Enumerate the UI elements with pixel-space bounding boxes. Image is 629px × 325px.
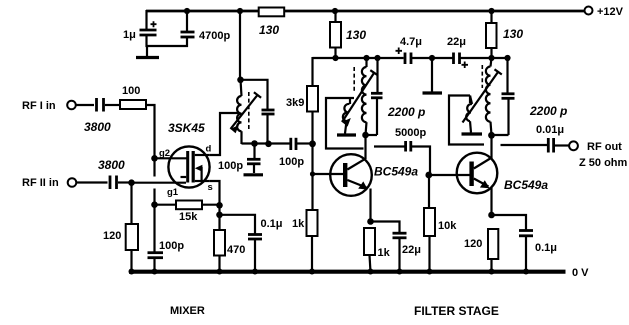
- svg-text:15k: 15k: [179, 211, 198, 223]
- wire 0.01u to terminal: [555, 144, 570, 146]
- node rail/mixer tank: [237, 8, 243, 14]
- node rail/130c: [488, 8, 494, 14]
- node base Q1: [310, 171, 315, 176]
- wire g2 lead: [155, 148, 189, 159]
- svg-text:0.1μ: 0.1μ: [535, 242, 557, 254]
- node tank2 bottom: [488, 132, 495, 139]
- node rail/4700p: [184, 8, 190, 14]
- capacitor 100p shunt to ground: [218, 144, 261, 174]
- caption FILTER STAGE: [414, 304, 499, 318]
- wire RF out: [501, 144, 548, 146]
- terminal RF II in: [22, 177, 76, 189]
- wire emitter node to 0.1u: [492, 215, 527, 230]
- svg-text:1k: 1k: [292, 218, 305, 230]
- capacitor 5000p: [395, 127, 426, 152]
- wire 0V bottom rail: [129, 267, 589, 279]
- transistor Q1 BC549a: [330, 154, 418, 222]
- wire 4.7u to 22u: [412, 57, 453, 59]
- svg-text:0.1μ: 0.1μ: [261, 218, 283, 230]
- svg-text:3800: 3800: [84, 120, 111, 134]
- resistor 15k: [155, 201, 220, 224]
- wire 5000p left: [374, 145, 405, 147]
- svg-text:130: 130: [503, 27, 523, 41]
- resistor 470: [214, 205, 245, 272]
- svg-text:0.01μ: 0.01μ: [536, 124, 564, 136]
- node 0V/22u: [397, 269, 403, 275]
- resistor 130 (filter 1 collector): [330, 11, 366, 59]
- capacitor C 4700p: [181, 11, 231, 47]
- node filter input: [309, 140, 316, 147]
- wire tank1 bottom to 2200p: [366, 134, 378, 136]
- svg-text:RF I in: RF I in: [22, 100, 56, 112]
- caption MIXER: [170, 305, 205, 317]
- capacitor 0.1u (Q2 emitter): [519, 231, 557, 273]
- node tank bottom / 100p shunt: [251, 140, 258, 147]
- svg-text:100: 100: [122, 85, 140, 97]
- wire base Q2: [429, 174, 470, 176]
- svg-text:2200 p: 2200 p: [529, 104, 567, 118]
- node bus/2200p-1: [374, 55, 380, 61]
- node bus/2200p-2: [504, 55, 510, 61]
- wire cap to g1 node: [118, 181, 132, 183]
- coupling coil tank 1: [343, 104, 350, 134]
- resistor 10k: [424, 175, 457, 272]
- coupling coil tank 2: [466, 96, 472, 133]
- node mixer tank top: [237, 77, 244, 84]
- terminal +12V: [585, 6, 624, 18]
- resistor 120 (RF II bias): [103, 183, 138, 272]
- resistor 1k (Q1 emitter): [364, 228, 391, 272]
- wire source down: [210, 181, 220, 205]
- svg-text:0 V: 0 V: [572, 267, 589, 279]
- svg-text:d: d: [206, 144, 212, 155]
- node 0V/470: [217, 269, 223, 275]
- wire RF II to cap: [77, 181, 108, 183]
- wire cap to R100: [105, 104, 120, 106]
- svg-text:100p: 100p: [218, 160, 243, 172]
- capacitor 0.01u (RF out): [536, 124, 564, 153]
- svg-text:BC549a: BC549a: [504, 178, 548, 192]
- node g2: [151, 155, 158, 162]
- wire 22u to 2200p-2 branch: [461, 57, 509, 59]
- svg-text:3k9: 3k9: [286, 97, 304, 109]
- resistor 120 (Q2 emitter): [464, 229, 498, 272]
- wire R100 to g2 node: [146, 105, 155, 159]
- capacitor 22u (top): [447, 36, 468, 68]
- capacitor 22u (Q1 emitter): [393, 233, 421, 272]
- inductor L1 variable (mixer tank): [231, 80, 262, 144]
- svg-text:MIXER: MIXER: [170, 305, 205, 317]
- ground tank 2: [462, 132, 483, 135]
- node bus/130b: [332, 55, 338, 61]
- node emitter Q1: [367, 218, 374, 225]
- svg-text:g2: g2: [159, 148, 170, 159]
- node tank1 bottom: [362, 132, 369, 139]
- capacitor 3800 (RF II coupling): [98, 158, 125, 189]
- svg-text:470: 470: [227, 244, 245, 256]
- svg-text:10k: 10k: [438, 220, 457, 232]
- wire rail down to mixer tank: [239, 11, 241, 80]
- svg-text:s: s: [208, 182, 213, 193]
- wire +12V top rail: [146, 10, 584, 13]
- capacitor 100p (g2 bypass): [148, 205, 185, 272]
- node source/0.1u: [216, 212, 223, 219]
- svg-text:100p: 100p: [159, 240, 184, 252]
- node bus/coil2: [488, 55, 494, 61]
- node 0V/0.1u mixer: [252, 269, 258, 275]
- svg-text:3800: 3800: [98, 158, 125, 172]
- resistor 130 (filter 2 collector): [486, 11, 523, 59]
- node tank bottom / tank cap: [265, 141, 272, 148]
- resistor 1k (Q1 bias lower): [292, 210, 318, 272]
- node 0V/0.1u filter: [523, 269, 529, 275]
- node 0V/120b: [489, 269, 495, 275]
- resistor 3k9: [286, 86, 318, 144]
- svg-text:RF II in: RF II in: [22, 177, 59, 189]
- node 0V/1k emitter: [368, 269, 374, 275]
- inductor variable tank 2: [463, 58, 502, 135]
- wire base Q1: [313, 173, 344, 175]
- svg-text:4700p: 4700p: [199, 30, 230, 42]
- wire mixer tank bottom: [242, 142, 291, 144]
- wire tank2 bottom to 2200p: [492, 134, 509, 136]
- capacitor 2200p (tank 1): [371, 58, 425, 135]
- svg-text:130: 130: [259, 23, 279, 37]
- svg-text:120: 120: [464, 238, 482, 250]
- svg-text:1k: 1k: [378, 247, 391, 259]
- capacitor C 1u electrolytic: [123, 10, 157, 47]
- wire bias node down to base tee: [311, 144, 313, 211]
- node base Q2: [425, 172, 432, 179]
- svg-text:BC549a: BC549a: [374, 165, 418, 179]
- wire source node to 0.1u: [220, 215, 256, 234]
- svg-text:FILTER STAGE: FILTER STAGE: [414, 304, 499, 318]
- shield box tank 1: [326, 98, 364, 149]
- node 0V/1k bias: [309, 269, 315, 275]
- wire drain to mixer tank: [210, 113, 239, 155]
- node source/15k: [216, 202, 223, 209]
- svg-text:+12V: +12V: [597, 6, 624, 18]
- capacitor 2200p (tank 2): [502, 58, 568, 135]
- svg-text:g1: g1: [167, 187, 179, 198]
- wire g1 lead: [132, 183, 187, 198]
- capacitor mixer tank: [262, 110, 275, 144]
- wire filter supply bus y58: [313, 57, 404, 87]
- svg-text:2200 p: 2200 p: [387, 105, 425, 119]
- node g1: [128, 179, 135, 186]
- svg-text:22μ: 22μ: [402, 244, 421, 256]
- wire RF I to cap: [76, 104, 94, 106]
- resistor 100: [120, 85, 146, 109]
- terminal RF I in: [22, 100, 76, 112]
- svg-text:3SK45: 3SK45: [168, 121, 205, 135]
- svg-text:100p: 100p: [279, 156, 304, 168]
- wire emitter node to 22u: [371, 222, 400, 233]
- node 15k/g2 line: [151, 201, 158, 208]
- node rail/130b: [332, 8, 338, 14]
- node bus/coil1: [363, 55, 369, 61]
- wire mixer tank top: [240, 80, 268, 110]
- wire collector Q1: [364, 135, 366, 159]
- inductor variable tank 1: [342, 58, 378, 135]
- terminal RF out: [569, 141, 627, 169]
- wire 1u to 4700p bottom: [146, 45, 189, 47]
- svg-text:120: 120: [103, 230, 121, 242]
- capacitor 3800 (RF I coupling): [84, 98, 111, 134]
- ground tank 1: [337, 133, 356, 136]
- wire collector Q2: [490, 135, 492, 159]
- capacitor 100p series (mixer out): [279, 138, 313, 168]
- resistor 130 (top horizontal): [259, 8, 285, 38]
- svg-text:Z 50 ohm: Z 50 ohm: [579, 157, 628, 169]
- node 0V/120a: [129, 269, 135, 275]
- ground below 1u: [136, 46, 159, 58]
- svg-text:130: 130: [346, 28, 366, 42]
- svg-text:1μ: 1μ: [123, 29, 136, 41]
- transistor Q2 BC549a: [457, 153, 549, 216]
- node 0V/10k: [427, 269, 433, 275]
- ground below 100p shunt: [244, 173, 264, 176]
- node emitter Q2: [488, 212, 495, 219]
- capacitor 4.7u: [396, 36, 423, 64]
- transistor U1 3SK45 dual-gate MOSFET: [168, 121, 213, 193]
- svg-text:5000p: 5000p: [395, 127, 426, 139]
- wire g2 node down (crosses g1 wire with gap): [153, 158, 155, 205]
- node bus/ground stub: [429, 55, 435, 61]
- svg-text:RF out: RF out: [587, 141, 622, 153]
- wire 5000p to base Q2: [412, 147, 431, 176]
- svg-text:4.7μ: 4.7μ: [400, 36, 422, 48]
- svg-text:22μ: 22μ: [447, 36, 466, 48]
- shield box tank 2: [449, 96, 484, 145]
- capacitor 0.1u (mixer): [248, 218, 283, 272]
- ground stub between 4.7u and 22u: [423, 58, 443, 93]
- node 0V/100p: [152, 269, 158, 275]
